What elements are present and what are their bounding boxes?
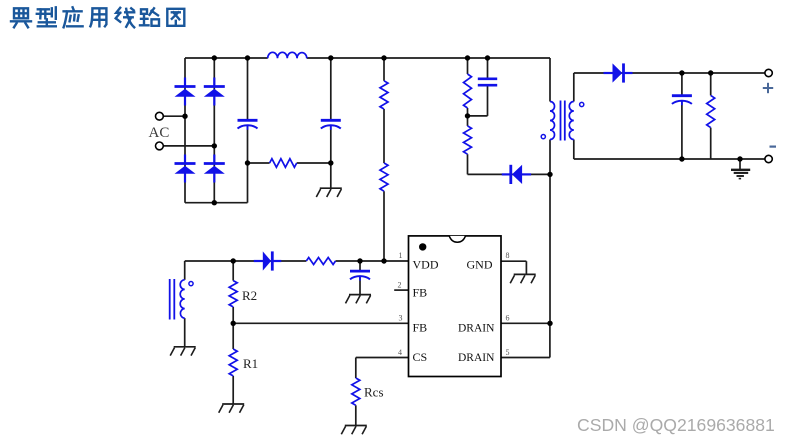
wire AC bottom lead (163, 145, 214, 147)
svg-text:DRAIN: DRAIN (458, 352, 495, 364)
svg-text:Rcs: Rcs (364, 385, 384, 400)
capacitor C2 (321, 120, 341, 130)
svg-text:6: 6 (506, 314, 510, 323)
wire AC top lead (163, 115, 185, 117)
diode D-out (604, 63, 633, 82)
resistor R-bleed1 (380, 81, 388, 109)
wire bridge bottom rail (185, 202, 248, 204)
resistor R1 (229, 349, 237, 376)
capacitor C-vdd (350, 271, 370, 281)
U1 label VDD (413, 257, 439, 271)
U1 pin number 2 (398, 281, 402, 290)
ground chassis pin8 (510, 274, 536, 283)
U1 pin number 1 (399, 251, 403, 260)
U1 pin number 4 (398, 348, 402, 357)
wire primary bottom drain (549, 140, 551, 324)
U1 label DRAIN pin5 (458, 352, 495, 364)
T1 secondary phase dot (580, 102, 584, 106)
output terminal plus (765, 69, 772, 76)
resistor R-snub2 (464, 126, 472, 154)
wire DRAIN pin6 (501, 322, 550, 324)
wire bridge left column (184, 58, 186, 203)
AC terminal top (156, 112, 164, 120)
svg-text:5: 5 (506, 348, 510, 357)
resistor R-vdd (306, 258, 335, 265)
wire snubber column (467, 58, 469, 174)
wire top rail left segment (185, 57, 268, 59)
wire snubber cap link (468, 115, 488, 117)
wire CS pin4 line (356, 358, 409, 379)
op-amp U1 body (409, 236, 502, 377)
label AC (149, 125, 170, 141)
inductor L1 common-mode choke (268, 52, 307, 58)
transformer T2 core (170, 279, 175, 320)
watermark (577, 415, 775, 436)
wire FB pin3 line (233, 322, 408, 324)
transformer T1 primary winding (550, 102, 555, 140)
wire C2 column upper (330, 58, 332, 120)
diode D1 bridge top-left (175, 78, 196, 106)
capacitor C-snub (478, 79, 497, 85)
svg-text:AC: AC (149, 125, 170, 141)
wire Cout column (681, 73, 683, 159)
wire C2 column lower (330, 126, 332, 188)
U1 pin number 5 (506, 348, 510, 357)
diode D3 bridge bottom-left (175, 155, 196, 183)
transformer T1 core (561, 101, 565, 141)
U1 label GND (467, 257, 493, 271)
ground chassis aux (170, 347, 196, 356)
label R1 (243, 356, 258, 371)
svg-text:FB: FB (413, 286, 428, 300)
wire VDD cap stem (359, 261, 361, 295)
wire aux top lead (184, 261, 186, 280)
label Rcs (364, 385, 384, 400)
ground chassis R1 (219, 404, 245, 413)
wire VDD line left (185, 260, 307, 262)
wire GND pin8 (501, 261, 526, 274)
U1 label FB pin3 (413, 321, 428, 335)
wire secondary bottom lead (573, 140, 575, 160)
T2 phase dot (189, 282, 193, 286)
wire primary top (549, 58, 551, 102)
wire earth stem (739, 159, 741, 170)
U1 label DRAIN pin6 (458, 323, 495, 335)
resistor R-out (707, 95, 715, 127)
wire Rcs stem (355, 405, 357, 425)
wire snubber to drain (468, 173, 551, 175)
resistor R2 (229, 281, 237, 307)
label plus (763, 83, 773, 93)
svg-text:2: 2 (398, 281, 402, 290)
wire FB pin2 stub (394, 289, 408, 291)
svg-text:FB: FB (413, 321, 428, 335)
U1 pin1 marker dot (419, 243, 426, 250)
label minus (770, 146, 777, 148)
U1 pin number 3 (399, 314, 403, 323)
wire Rout column (710, 73, 712, 159)
capacitor C-out (672, 96, 692, 106)
U1 pin number 8 (506, 251, 510, 260)
AC terminal bottom (156, 142, 164, 150)
label R2 (242, 288, 257, 303)
svg-text:CS: CS (413, 350, 428, 364)
svg-text:4: 4 (398, 348, 402, 357)
resistor R-snub1 (464, 74, 472, 108)
resistor R-filter (270, 159, 297, 168)
wire C1 column lower (247, 126, 249, 203)
resistor R-bleed2 (380, 163, 388, 191)
capacitor C1 (238, 120, 258, 130)
wire snubber cap column (487, 58, 489, 116)
T1 primary phase dot (541, 135, 545, 139)
wire mid link right (297, 162, 331, 164)
wire bleeder column (383, 58, 385, 261)
ground earth output (731, 170, 750, 179)
wire R2R1 column (232, 261, 234, 404)
svg-text:3: 3 (399, 314, 403, 323)
svg-text:R1: R1 (243, 356, 258, 371)
output terminal minus (765, 155, 772, 162)
ground chassis Rcs (341, 426, 367, 435)
U1 label CS (413, 350, 428, 364)
wire DRAIN pin5 (501, 323, 550, 357)
U1 label FB pin2 (413, 286, 428, 300)
svg-text:8: 8 (506, 251, 510, 260)
diode D2 bridge top-right (204, 78, 225, 106)
svg-text:VDD: VDD (413, 257, 439, 271)
wire VDD line right (336, 260, 409, 262)
svg-text:R2: R2 (242, 288, 257, 303)
svg-text:DRAIN: DRAIN (458, 323, 495, 335)
wire mid link left (248, 162, 270, 164)
ground chassis C-vdd (346, 295, 372, 304)
diode D4 bridge bottom-right (204, 155, 225, 183)
wire output top rail (574, 72, 765, 74)
title 典型应用线路图 (11, 7, 184, 27)
wire secondary top lead (573, 73, 575, 102)
svg-text:GND: GND (467, 257, 493, 271)
U1 pin number 6 (506, 314, 510, 323)
transformer T1 secondary winding (569, 102, 574, 140)
svg-text:1: 1 (399, 251, 403, 260)
diode D-vdd (254, 251, 281, 270)
wire aux bottom lead (184, 318, 186, 347)
wire output bottom rail (574, 158, 765, 160)
diode D-clamp (502, 165, 531, 184)
transformer T2 aux winding (180, 280, 185, 318)
resistor Rcs (352, 378, 360, 405)
wire bridge right column (213, 58, 215, 203)
wire C1 column upper (247, 58, 249, 120)
wire top rail right segment (307, 57, 550, 59)
ground chassis C2 (316, 188, 342, 197)
